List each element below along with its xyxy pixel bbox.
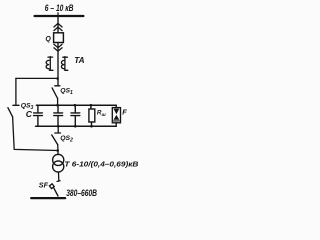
disconnector QS1 blade xyxy=(52,88,58,99)
node junction dot at tee xyxy=(56,77,59,80)
breaker Q box xyxy=(54,33,64,43)
node HV bus connection stub xyxy=(57,13,59,16)
capacitor C2 xyxy=(54,105,63,126)
disconnector QS1 fixed contact tick xyxy=(55,85,60,87)
wire transformer to SF xyxy=(58,172,60,181)
node junction dot bypass/transformer xyxy=(56,149,59,152)
svg-text:QS2: QS2 xyxy=(60,135,73,144)
svg-text:Rш: Rш xyxy=(97,110,107,117)
wire main line through CT down to QS1 xyxy=(57,43,59,86)
node dot QS1/top bus xyxy=(56,104,59,107)
current transformer TA right winding xyxy=(61,57,67,71)
breaker SF head square xyxy=(49,184,54,189)
capacitor C1 xyxy=(34,105,43,126)
svg-text:380–660В: 380–660В xyxy=(66,188,97,198)
wire bottom bus to QS2 xyxy=(57,126,59,132)
wire QS1 to filter top bus xyxy=(57,99,59,106)
drawout contact chevrons above Q xyxy=(54,23,62,30)
arrester F xyxy=(112,105,120,126)
wire filter bottom bus xyxy=(36,125,117,127)
node dot QS2/bottom bus xyxy=(57,125,60,128)
resistor Rsh xyxy=(89,105,95,126)
svg-text:QS1: QS1 xyxy=(60,87,73,96)
capacitor C3 xyxy=(71,105,80,126)
wire HV bus 6-10kV xyxy=(35,15,84,17)
svg-text:F: F xyxy=(122,107,127,116)
disconnector QS2 fixed contact tick xyxy=(55,132,61,134)
wire tee branch to left xyxy=(16,77,58,79)
breaker SF fixed contact tick xyxy=(57,180,60,183)
current transformer TA left winding xyxy=(46,57,53,71)
node dot cap3/bottom bus xyxy=(74,125,77,128)
svg-text:C: C xyxy=(26,109,33,119)
drawout contact chevrons below Q xyxy=(54,44,62,51)
disconnector QS3 fixed contact tick xyxy=(13,104,19,106)
wire LV bus 380-660V xyxy=(31,197,65,199)
wire from bus to breaker xyxy=(57,17,59,33)
wire QS2 to transformer xyxy=(57,145,59,155)
svg-text:Т 6-10/(0,4–0,69)кВ: Т 6-10/(0,4–0,69)кВ xyxy=(64,159,139,168)
breaker SF blade xyxy=(54,188,58,196)
svg-text:TA: TA xyxy=(74,56,84,65)
node dot cap3/top bus xyxy=(74,104,77,107)
disconnector QS2 blade xyxy=(52,135,58,145)
node dot Rsh/top bus xyxy=(90,104,93,107)
disconnector QS3 blade xyxy=(8,108,13,117)
wire filter top bus xyxy=(36,104,116,106)
svg-text:6 – 10 кВ: 6 – 10 кВ xyxy=(45,3,74,13)
svg-text:Q: Q xyxy=(45,36,51,43)
transformer T primary winding xyxy=(53,154,64,165)
svg-text:SF: SF xyxy=(39,181,49,190)
wire left branch down to QS3 xyxy=(15,78,17,104)
node dot Rsh/bottom bus xyxy=(90,125,93,128)
transformer T secondary winding xyxy=(53,161,64,172)
wire QS3 lower wire xyxy=(13,117,58,151)
